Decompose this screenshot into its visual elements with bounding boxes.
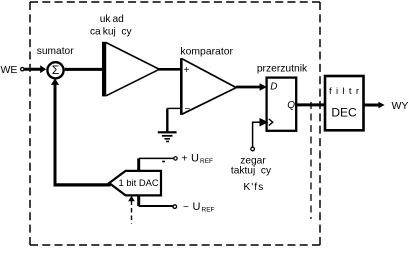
svg-text:DEC: DEC [331, 106, 357, 120]
svg-text:K'fs: K'fs [243, 182, 264, 193]
svg-text:filtr: filtr [329, 86, 363, 97]
svg-text:WY: WY [392, 100, 409, 112]
svg-text:U: U [193, 201, 201, 213]
svg-text:sumator: sumator [37, 46, 74, 57]
svg-text:WE: WE [1, 64, 18, 76]
svg-text:Σ: Σ [52, 63, 59, 77]
svg-text:1 bit DAC: 1 bit DAC [119, 177, 159, 188]
svg-text:ca kuj cy: ca kuj cy [90, 27, 133, 38]
svg-text:REF: REF [202, 207, 215, 214]
svg-text:przerzutnik: przerzutnik [257, 64, 308, 75]
svg-text:komparator: komparator [180, 47, 233, 58]
svg-text:+: + [184, 65, 190, 76]
svg-text:U: U [191, 152, 199, 164]
svg-text:+: + [182, 153, 188, 164]
svg-text:−: − [183, 202, 189, 213]
svg-text:Q: Q [287, 100, 295, 111]
svg-text:taktuj cy: taktuj cy [231, 166, 272, 177]
svg-text:D: D [270, 82, 277, 93]
svg-text:−: − [184, 104, 190, 115]
svg-text:REF: REF [200, 158, 213, 165]
svg-text:uk ad: uk ad [100, 14, 124, 25]
